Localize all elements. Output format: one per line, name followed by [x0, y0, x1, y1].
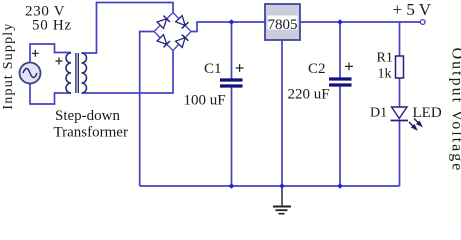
C1 polarity plus: [236, 64, 244, 72]
wire: C1 branch: [231, 22, 233, 186]
node: C1 top junction: [229, 19, 235, 25]
svg-text:Output Voltage: Output Voltage: [449, 48, 461, 173]
bridge diode D-TR: [176, 16, 189, 29]
wire: bottom ground rail: [140, 185, 400, 187]
wire: bridge right corner to +5V top rail: [191, 22, 422, 32]
AC source V1: [20, 63, 41, 84]
node: C2 top junction: [337, 19, 343, 25]
capacitor C2 plates: [329, 79, 352, 85]
transformer T1 core: [76, 53, 78, 93]
wire: transformer secondary top to bridge top corner: [82, 3, 174, 54]
svg-text:C1: C1: [204, 61, 222, 77]
svg-text:C2: C2: [308, 61, 326, 77]
regulator U1 7805: [265, 4, 300, 40]
wire: AC source top lead to transformer primary top: [30, 44, 71, 63]
wire: C2 branch: [339, 22, 341, 186]
ground: [273, 186, 291, 214]
svg-text:220 uF: 220 uF: [288, 87, 330, 103]
LED D1: [391, 107, 409, 121]
bridge diode D-TL: [157, 16, 170, 29]
svg-text:LED: LED: [413, 105, 442, 121]
svg-text:50 Hz: 50 Hz: [32, 18, 72, 34]
wire: AC source bottom lead to transformer primary bottom: [30, 83, 71, 104]
bridge diode D-BR: [176, 35, 189, 48]
svg-text:+ 5 V: + 5 V: [393, 0, 432, 19]
capacitor C1 plates: [220, 80, 243, 86]
node: C1 bottom junction: [229, 183, 235, 189]
svg-text:R1: R1: [377, 51, 393, 66]
wire: bridge left corner to bottom ground rail: [140, 32, 154, 187]
svg-text:Input Supply: Input Supply: [1, 22, 16, 109]
svg-text:Step-down: Step-down: [55, 108, 120, 124]
bridge diode D-BL: [157, 35, 170, 48]
C2 polarity plus: [345, 63, 353, 71]
transformer T1 primary winding: [66, 53, 71, 93]
wire: 7805 ground pin: [281, 40, 283, 186]
svg-text:7805: 7805: [268, 17, 298, 33]
svg-text:Transformer: Transformer: [54, 125, 128, 141]
svg-text:100 uF: 100 uF: [184, 93, 226, 109]
node: C2 bottom junction: [337, 183, 343, 189]
polarity plus at primary: [56, 58, 63, 65]
terminal: +5V output: [420, 20, 425, 25]
svg-text:1k: 1k: [378, 67, 392, 82]
wire: R1 / LED branch: [399, 22, 401, 186]
LED emission arrows: [409, 119, 422, 130]
svg-text:D1: D1: [370, 106, 387, 121]
resistor R1: [396, 56, 404, 78]
polarity plus at source: [32, 50, 39, 57]
wire: transformer secondary bottom to bridge bottom corner: [82, 51, 174, 94]
transformer T1 secondary winding: [82, 53, 87, 93]
node: ground junction: [279, 183, 285, 189]
bridge rectifier edges: [154, 13, 191, 51]
